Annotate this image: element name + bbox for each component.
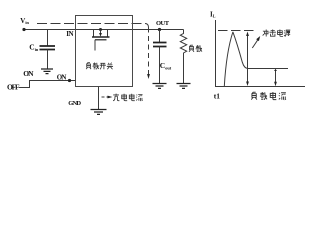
svg-text:Cout: Cout — [160, 61, 172, 70]
svg-text:Vin: Vin — [20, 17, 29, 25]
svg-text:ON: ON — [23, 69, 34, 78]
svg-text:IN: IN — [66, 30, 73, 38]
svg-text:IL: IL — [210, 10, 216, 18]
svg-text:OFF: OFF — [7, 83, 20, 92]
svg-text:Cin: Cin — [29, 43, 39, 52]
svg-text:t1: t1 — [214, 92, 220, 101]
svg-text:GND: GND — [68, 100, 81, 107]
svg-text:OUT: OUT — [156, 20, 170, 27]
